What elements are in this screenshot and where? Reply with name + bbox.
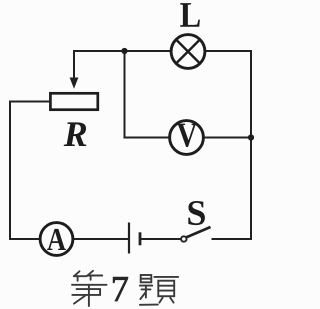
wire: battery to switch pivot [141,238,182,240]
node: junction dot top (lamp/voltmeter branch) [121,48,127,54]
caption digit 7 [113,277,128,301]
switch S pivot [181,236,186,241]
label R [64,122,87,146]
label L [180,3,200,27]
rheostat arrow wiper [70,78,79,89]
wire: voltmeter branch vertical from top node [125,52,171,138]
battery cell: long positive plate [128,223,130,254]
battery cell: short negative plate [139,232,142,245]
lamp L [171,35,205,69]
wire top-left: wiper corner to lamp [74,51,172,79]
caption character 题 [140,275,178,305]
node: junction dot right (voltmeter/right wire) [248,134,254,140]
wire: right side vertical down to switch [250,137,252,240]
switch S blade [187,227,211,237]
resistor R (rheostat box) [50,93,97,109]
wire: voltmeter to right node [203,137,250,139]
voltmeter V [170,121,204,155]
caption character 第 [72,271,107,306]
ammeter A [40,223,73,256]
wire: rheostat left lead down left side to ammeter [10,102,49,240]
label S [188,201,205,225]
wire: lamp to top-right corner [204,51,251,138]
wire: switch contact to bottom-right corner [212,238,253,240]
wire: ammeter to battery [73,238,128,240]
label A [47,229,66,250]
label V [177,124,197,147]
